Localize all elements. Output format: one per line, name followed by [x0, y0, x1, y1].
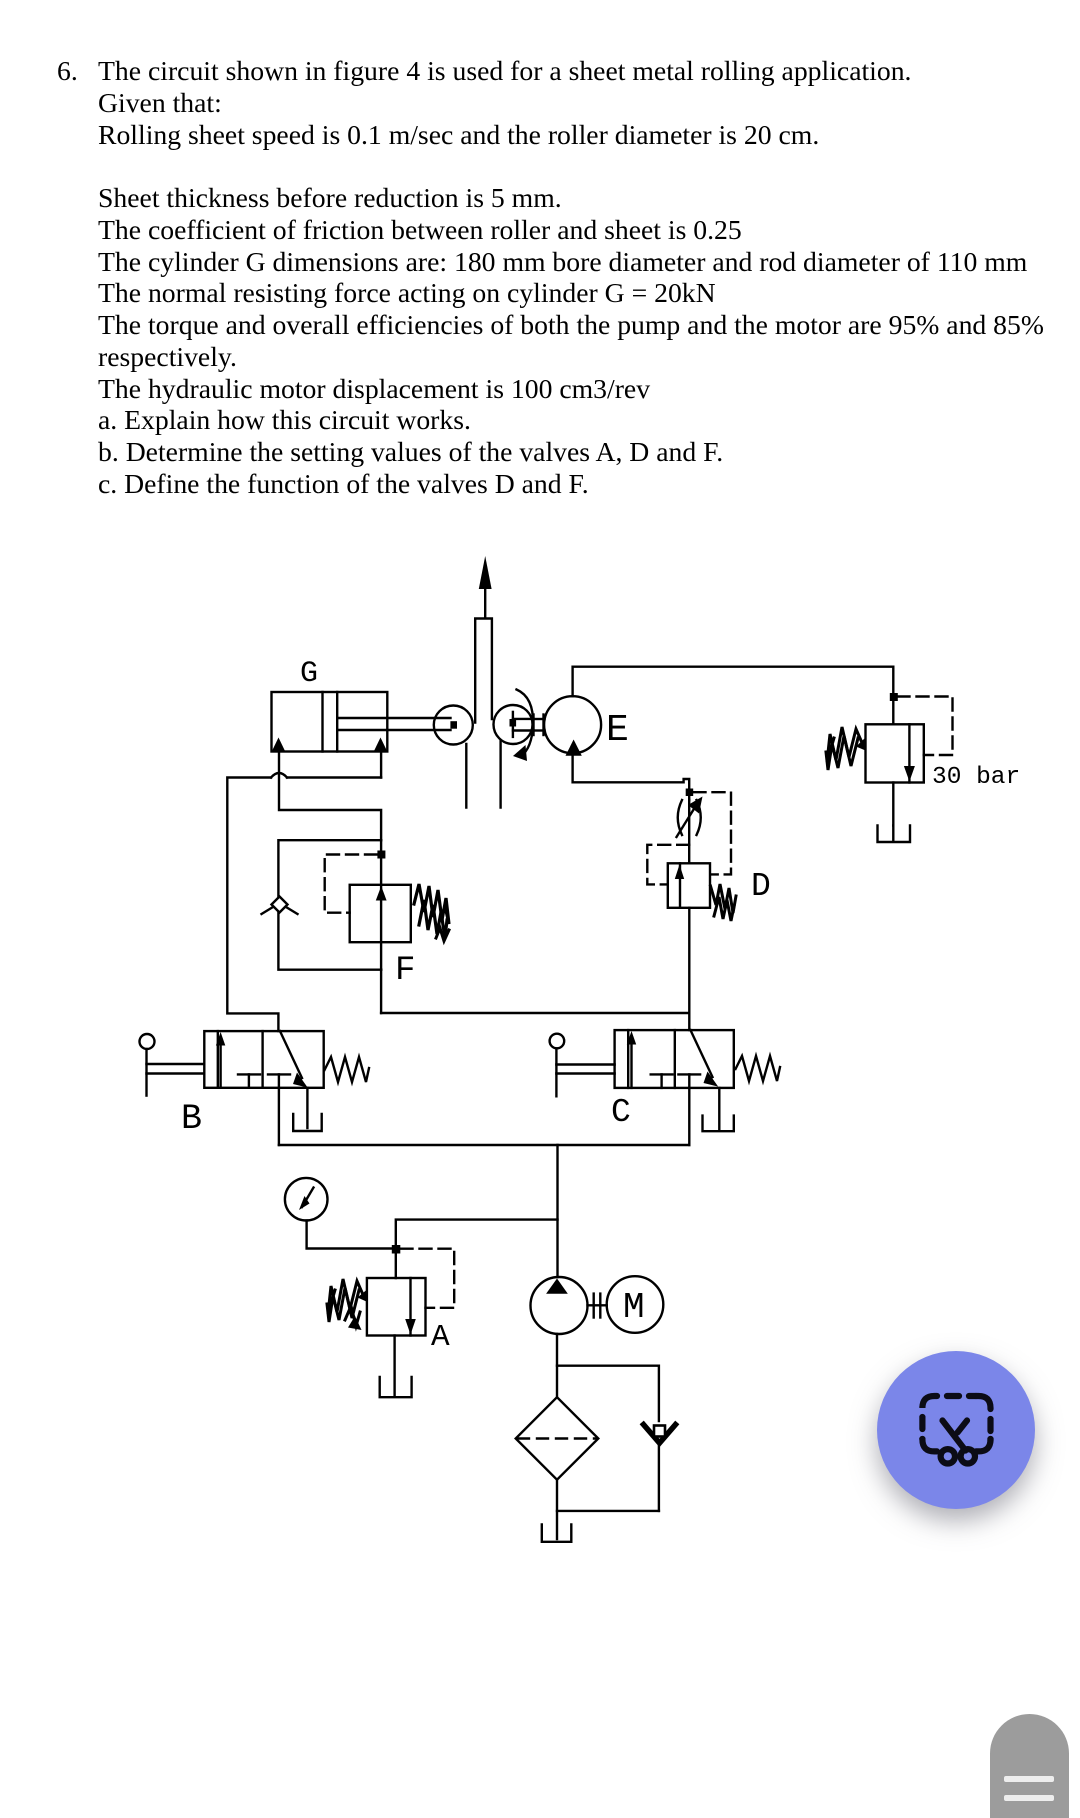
tank (valve B) — [293, 1114, 322, 1131]
roller (left) — [434, 706, 473, 745]
hydraulic motor E — [544, 696, 601, 756]
wire: filter bypass branch — [557, 1366, 659, 1421]
wire: pump riser — [556, 1145, 558, 1277]
wire: valve C to tank — [718, 1088, 720, 1129]
wire: valve C supply port down — [688, 1088, 690, 1145]
pilot line (dashed) of valve A — [401, 1249, 455, 1308]
sheet feed arrow — [479, 556, 492, 618]
wire: motor E bottom to valve D — [573, 753, 690, 800]
pump — [531, 1277, 588, 1334]
svg-text:G: G — [300, 657, 318, 691]
wire: cylinder left port down and over to valve F line — [279, 752, 381, 841]
tank (valve C) — [703, 1116, 734, 1132]
bottom-right handle — [990, 1714, 1069, 1818]
wire: valve B supply port down — [278, 1088, 280, 1145]
node: junction at valve A pilot tap — [392, 1245, 401, 1254]
spring of relief valve 30 bar — [826, 727, 866, 770]
roller (right) with rotation arrow — [494, 690, 534, 762]
spring of valve C — [736, 1056, 781, 1081]
shaft coupling pump to motor M — [588, 1294, 607, 1318]
filter — [516, 1397, 599, 1480]
electric motor M — [607, 1276, 664, 1333]
node: pilot junction above valve D — [686, 789, 694, 797]
svg-text:E: E — [606, 709, 629, 752]
svg-text:C: C — [611, 1094, 631, 1131]
spring of valve A — [327, 1279, 368, 1330]
wire: valve F output to valve C — [381, 1012, 689, 1014]
relief valve (30 bar) body — [866, 724, 924, 782]
spring of valve F — [414, 884, 449, 941]
wire: pump suction to filter — [556, 1334, 558, 1397]
spring of valve D — [711, 884, 737, 921]
tank (valve A) — [380, 1377, 412, 1397]
tank (relief valve 30 bar) — [878, 826, 911, 843]
spring of valve B — [325, 1057, 370, 1082]
pilot line (dashed) right of valve D — [694, 792, 732, 874]
svg-text:D: D — [751, 868, 771, 905]
cylinder G — [272, 692, 388, 752]
check valve (valve F bypass) — [262, 897, 298, 915]
throttle (variable restrictor) above valve D — [677, 797, 703, 864]
valve D body — [668, 863, 710, 908]
tank (main) — [542, 1525, 572, 1542]
sheet (before rolling, below rollers) — [466, 741, 500, 808]
wire: bypass with check valve around valve F — [278, 840, 381, 970]
svg-text:M: M — [623, 1287, 645, 1328]
piston rod of cylinder G — [337, 718, 450, 730]
wire: main line through valve F — [380, 840, 382, 1013]
valve C body (3/2 DCV) — [615, 1030, 734, 1088]
wire: branch to gauge and valve A — [396, 1220, 558, 1278]
wire: cylinder right port to valve B (with hop over left port line) — [227, 752, 381, 1031]
pilot line (dashed) left of valve D — [647, 845, 689, 885]
check valve (filter bypass) — [644, 1425, 676, 1511]
node: pilot tap junction at relief valve — [890, 693, 898, 701]
valve B body (3/2 DCV) — [204, 1031, 323, 1088]
valve A body (relief) — [367, 1278, 426, 1336]
valve F body — [350, 885, 411, 942]
svg-text:F: F — [395, 952, 415, 990]
svg-text:A: A — [431, 1320, 450, 1355]
wire: valve B to tank — [306, 1088, 308, 1128]
lever of valve C — [550, 1034, 615, 1097]
sheet (after rolling, above rollers) — [475, 619, 492, 723]
pilot line (dashed) of valve F — [325, 855, 377, 913]
wire: motor E top to relief valve — [573, 667, 894, 725]
wire: return to tank — [557, 1480, 659, 1539]
wire: gauge connection — [307, 1221, 396, 1249]
svg-text:30 bar: 30 bar — [932, 764, 1020, 791]
lever of valve B — [140, 1034, 205, 1096]
shaft coupling roller to motor E — [534, 715, 545, 736]
node: junction above valve F — [377, 851, 385, 859]
wire: valve A to tank — [393, 1336, 395, 1396]
pilot line (dashed) of relief valve 30 bar — [898, 697, 953, 756]
scissors button — [877, 1351, 1035, 1509]
svg-text:B: B — [181, 1099, 202, 1139]
wire: relief valve to tank — [892, 783, 894, 826]
wire: valve D to valve C — [688, 908, 690, 1030]
pressure gauge — [285, 1178, 328, 1221]
wire: common supply line — [279, 1144, 689, 1146]
